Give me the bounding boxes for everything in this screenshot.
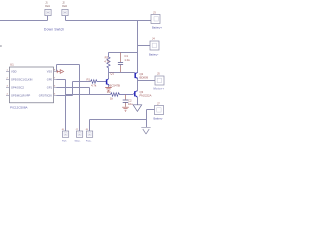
transistor Q1 (106, 72, 120, 88)
pin GP4/OSC2 (3) (6, 87, 10, 89)
connector K3 (bottom right) (86, 129, 93, 142)
svg-text:R1: R1 (87, 77, 91, 81)
ground under Q1 (105, 87, 112, 91)
svg-text:4.7k: 4.7k (91, 83, 97, 87)
resistor R3 (107, 90, 133, 100)
power terminal arrow at pin 8 (57, 70, 64, 74)
svg-text:BD809: BD809 (140, 76, 149, 80)
svg-text:Battery-: Battery- (154, 116, 164, 120)
wire ground bus bottom (90, 110, 155, 132)
svg-text:U1: U1 (10, 63, 14, 67)
svg-text:Rst1: Rst1 (45, 5, 50, 8)
wire VDD rail to bottom connector center (57, 65, 80, 132)
svg-text:Rst2: Rst2 (62, 5, 67, 8)
svg-text:GP1: GP1 (47, 86, 53, 90)
transistor Q2 (135, 72, 148, 80)
wire top-left net (0, 16, 48, 21)
pin GP2/T0CKI (5) (54, 95, 57, 97)
svg-text:GP3/MCLR/VPP: GP3/MCLR/VPP (11, 94, 30, 98)
pin GP0 (7) (54, 79, 57, 81)
wire Q3 emitter down (137, 97, 139, 105)
svg-text:Down Swtch: Down Swtch (44, 28, 64, 32)
IC U1 PIC12C508A (6, 63, 57, 110)
wire GP0 net jog down to R3 line, branch to connector K1 (57, 80, 111, 132)
battery terminal J7 (bottom right) (154, 102, 164, 121)
wire to battery2 (138, 45, 151, 47)
resistor R1 (87, 77, 107, 87)
pin GP5/OSC1/CLKIN (2) (6, 79, 10, 81)
svg-text:VSS: VSS (47, 70, 52, 74)
svg-text:GP4/OSC2: GP4/OSC2 (11, 86, 25, 90)
svg-text:Q1: Q1 (110, 72, 114, 76)
wire Q1 collector node (109, 73, 121, 80)
battery terminal J4 (mid right) (149, 37, 159, 57)
svg-text:4.7k: 4.7k (104, 59, 110, 63)
resistor R2 (104, 53, 110, 73)
ground symbol bottom right (141, 127, 150, 134)
ground under C2 (122, 107, 129, 111)
svg-text:PN2222A: PN2222A (140, 94, 152, 98)
connector J1 (left reed switch terminal) (45, 2, 51, 15)
wire Q2 base feed (121, 72, 135, 74)
pin GP3/MCLR/VPP (4) (6, 95, 10, 97)
connector K2 (bottom middle) (75, 129, 83, 142)
svg-text:GP0: GP0 (47, 78, 53, 82)
battery terminal J3 (top right) (151, 11, 163, 30)
ground (triangle) under Q3 (133, 105, 142, 112)
wire Q2 emitter / Q3 collector / motor node (138, 79, 156, 92)
svg-text:BC547B: BC547B (110, 83, 121, 87)
connector K1 (bottom left) (62, 129, 69, 142)
svg-text:VDD: VDD (11, 70, 17, 74)
svg-text:Slow+: Slow+ (75, 141, 82, 143)
svg-text:R3: R3 (107, 90, 111, 94)
wire supply rail to R2/C1 (109, 52, 138, 54)
wire GP1 net down to R3 line (57, 88, 90, 95)
svg-text:10u: 10u (128, 102, 133, 106)
svg-text:Fast+: Fast+ (86, 140, 92, 143)
svg-text:GP5/OSC1/CLKIN: GP5/OSC1/CLKIN (11, 78, 32, 82)
wire GP2 net jog up to R1 (57, 82, 91, 96)
connector J2 (right reed switch terminal) (62, 2, 68, 15)
pin VSS (8) (54, 71, 57, 73)
transistor Q3 (133, 90, 151, 98)
svg-text:GP2/T0CKI: GP2/T0CKI (39, 94, 53, 98)
wire top net to battery1 (66, 16, 152, 21)
capacitor C1 (118, 53, 130, 73)
pin GP1 (6) (54, 87, 57, 89)
motor terminal J5 (154, 72, 165, 91)
svg-text:1.0u: 1.0u (124, 58, 130, 62)
pin VDD (1) (6, 71, 10, 73)
svg-text:Motor+: Motor+ (154, 87, 165, 91)
svg-text:Battery+: Battery+ (152, 25, 163, 29)
capacitor C2 (123, 95, 133, 107)
svg-text:Battery-: Battery- (149, 52, 159, 56)
svg-text:PIC12C508A: PIC12C508A (10, 105, 28, 109)
wire V+ rail down (137, 21, 139, 73)
